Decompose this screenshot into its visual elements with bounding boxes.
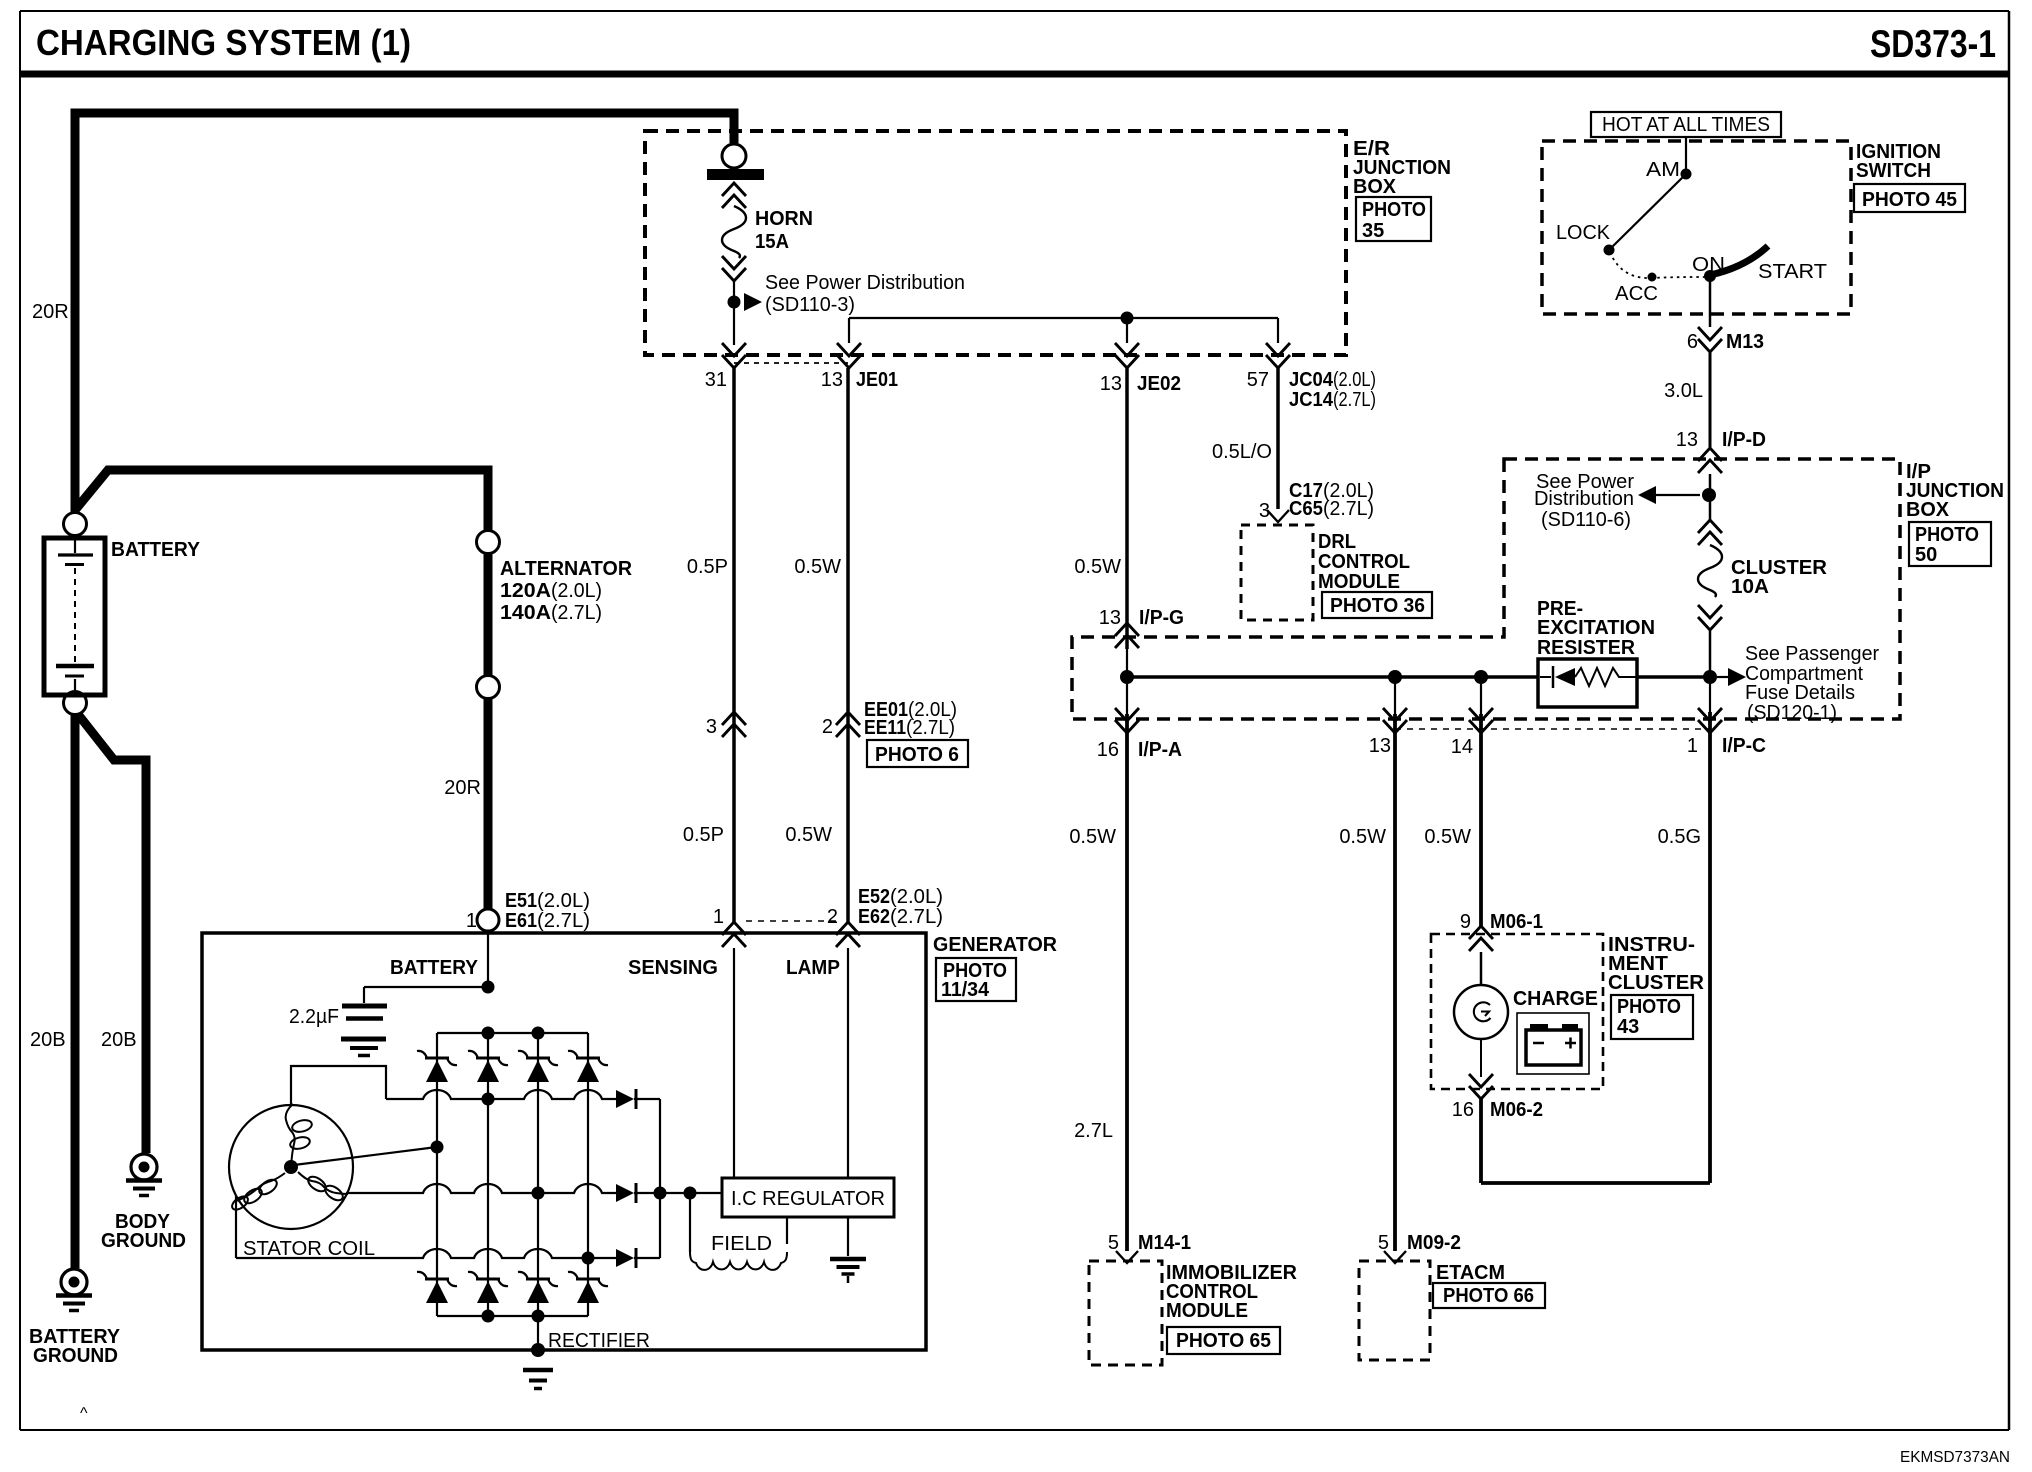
svg-text:20B: 20B <box>101 1029 137 1051</box>
svg-text:RECTIFIER: RECTIFIER <box>548 1330 650 1352</box>
svg-text:2.2µF: 2.2µF <box>289 1006 339 1028</box>
svg-text:3: 3 <box>706 716 717 738</box>
svg-text:PHOTO: PHOTO <box>1915 524 1979 546</box>
svg-text:(SD110-6): (SD110-6) <box>1541 509 1631 531</box>
svg-text:3.0L: 3.0L <box>1664 380 1703 402</box>
svg-text:43: 43 <box>1617 1016 1639 1038</box>
svg-text:GENERATOR: GENERATOR <box>933 934 1058 956</box>
svg-text:JC14(2.7L): JC14(2.7L) <box>1289 389 1376 411</box>
svg-text:16: 16 <box>1097 739 1119 761</box>
svg-text:I.C REGULATOR: I.C REGULATOR <box>731 1188 885 1210</box>
svg-text:PHOTO: PHOTO <box>1617 996 1681 1018</box>
svg-text:BOX: BOX <box>1906 499 1950 521</box>
svg-text:E61(2.7L): E61(2.7L) <box>505 910 590 932</box>
svg-text:2: 2 <box>827 906 838 928</box>
svg-text:5: 5 <box>1378 1232 1389 1254</box>
svg-text:0.5W: 0.5W <box>794 556 841 578</box>
svg-text:14: 14 <box>1451 736 1473 758</box>
svg-text:2.7L: 2.7L <box>1074 1120 1113 1142</box>
svg-text:3: 3 <box>1259 500 1270 522</box>
svg-text:1: 1 <box>713 906 724 928</box>
svg-text:140A(2.7L): 140A(2.7L) <box>500 602 602 624</box>
svg-text:^: ^ <box>80 1405 88 1422</box>
svg-text:PHOTO 6: PHOTO 6 <box>875 744 959 766</box>
svg-text:M06-1: M06-1 <box>1490 911 1543 933</box>
svg-text:M09-2: M09-2 <box>1407 1232 1461 1254</box>
svg-text:I/P-A: I/P-A <box>1138 739 1182 761</box>
svg-text:13: 13 <box>1099 607 1121 629</box>
svg-text:ON: ON <box>1692 254 1725 276</box>
svg-text:0.5W: 0.5W <box>1339 826 1386 848</box>
svg-text:13: 13 <box>1369 735 1391 757</box>
svg-text:1: 1 <box>466 910 477 932</box>
svg-text:SD373-1: SD373-1 <box>1870 23 1996 66</box>
svg-text:GROUND: GROUND <box>101 1230 186 1252</box>
svg-text:(SD110-3): (SD110-3) <box>765 294 855 316</box>
svg-text:BATTERY: BATTERY <box>111 539 201 561</box>
svg-text:RESISTER: RESISTER <box>1537 637 1636 659</box>
svg-text:0.5W: 0.5W <box>1069 826 1116 848</box>
svg-text:See Passenger: See Passenger <box>1745 643 1879 665</box>
svg-text:SWITCH: SWITCH <box>1856 160 1931 182</box>
svg-text:M14-1: M14-1 <box>1138 1232 1191 1254</box>
svg-text:CHARGING SYSTEM (1): CHARGING SYSTEM (1) <box>36 22 411 63</box>
svg-text:13: 13 <box>821 369 843 391</box>
svg-text:I/P-G: I/P-G <box>1139 607 1184 629</box>
svg-text:HORN: HORN <box>755 208 813 230</box>
svg-text:SENSING: SENSING <box>628 957 718 979</box>
svg-text:I/P-D: I/P-D <box>1722 429 1766 451</box>
svg-text:M13: M13 <box>1726 331 1764 353</box>
svg-text:FIELD: FIELD <box>711 1233 772 1255</box>
svg-text:STATOR COIL: STATOR COIL <box>243 1238 375 1260</box>
svg-text:E62(2.7L): E62(2.7L) <box>858 906 943 928</box>
svg-text:20B: 20B <box>30 1029 66 1051</box>
svg-text:Distribution: Distribution <box>1534 488 1634 510</box>
svg-text:0.5W: 0.5W <box>1424 826 1471 848</box>
svg-text:10A: 10A <box>1731 576 1769 598</box>
svg-text:2: 2 <box>822 716 833 738</box>
svg-text:13: 13 <box>1100 373 1122 395</box>
svg-text:0.5P: 0.5P <box>687 556 728 578</box>
svg-text:DRL: DRL <box>1318 531 1356 553</box>
svg-text:0.5G: 0.5G <box>1658 826 1701 848</box>
svg-text:GROUND: GROUND <box>33 1345 118 1367</box>
svg-text:15A: 15A <box>755 231 789 253</box>
svg-text:9: 9 <box>1460 911 1471 933</box>
svg-text:BOX: BOX <box>1353 176 1397 198</box>
svg-text:6: 6 <box>1687 331 1698 353</box>
svg-text:0.5W: 0.5W <box>1074 556 1121 578</box>
svg-text:EE11(2.7L): EE11(2.7L) <box>864 717 955 739</box>
svg-text:M06-2: M06-2 <box>1490 1099 1543 1121</box>
svg-text:31: 31 <box>705 369 727 391</box>
svg-text:0.5W: 0.5W <box>785 824 832 846</box>
svg-text:50: 50 <box>1915 544 1937 566</box>
svg-text:I/P-C: I/P-C <box>1722 735 1766 757</box>
svg-text:11/34: 11/34 <box>941 979 990 1001</box>
svg-text:1: 1 <box>1687 735 1698 757</box>
svg-text:JC04(2.0L): JC04(2.0L) <box>1289 369 1376 391</box>
svg-text:JE01: JE01 <box>856 369 898 391</box>
svg-text:JE02: JE02 <box>1137 373 1181 395</box>
svg-text:13: 13 <box>1676 429 1698 451</box>
svg-text:E51(2.0L): E51(2.0L) <box>505 890 590 912</box>
svg-text:PHOTO 45: PHOTO 45 <box>1862 189 1957 211</box>
svg-text:ETACM: ETACM <box>1436 1262 1505 1284</box>
svg-text:See Power Distribution: See Power Distribution <box>765 272 965 294</box>
svg-text:(SD120-1): (SD120-1) <box>1747 702 1837 724</box>
svg-text:AM: AM <box>1646 159 1680 181</box>
svg-text:EXCITATION: EXCITATION <box>1537 617 1655 639</box>
svg-text:0.5L/O: 0.5L/O <box>1212 441 1272 463</box>
svg-text:E52(2.0L): E52(2.0L) <box>858 886 943 908</box>
svg-text:CLUSTER: CLUSTER <box>1608 972 1705 994</box>
svg-text:MODULE: MODULE <box>1166 1300 1248 1322</box>
svg-text:ACC: ACC <box>1615 283 1658 305</box>
svg-text:16: 16 <box>1452 1099 1474 1121</box>
svg-text:PHOTO 36: PHOTO 36 <box>1330 595 1425 617</box>
svg-text:Fuse Details: Fuse Details <box>1745 682 1855 704</box>
svg-text:EKMSD7373AN: EKMSD7373AN <box>1900 1449 2010 1466</box>
svg-text:PHOTO: PHOTO <box>1362 199 1426 221</box>
svg-text:PHOTO 65: PHOTO 65 <box>1176 1330 1271 1352</box>
svg-text:BATTERY: BATTERY <box>390 957 479 979</box>
svg-text:C65(2.7L): C65(2.7L) <box>1289 498 1374 520</box>
svg-text:START: START <box>1758 261 1827 283</box>
svg-text:5: 5 <box>1108 1232 1119 1254</box>
svg-text:HOT AT ALL TIMES: HOT AT ALL TIMES <box>1602 114 1770 136</box>
svg-text:LAMP: LAMP <box>786 957 840 979</box>
svg-text:LOCK: LOCK <box>1556 222 1611 244</box>
svg-text:20R: 20R <box>444 777 481 799</box>
svg-text:ALTERNATOR: ALTERNATOR <box>500 558 633 580</box>
svg-text:MODULE: MODULE <box>1318 571 1400 593</box>
svg-text:PHOTO 66: PHOTO 66 <box>1443 1285 1534 1307</box>
svg-text:CONTROL: CONTROL <box>1318 551 1410 573</box>
svg-text:120A(2.0L): 120A(2.0L) <box>500 580 602 602</box>
svg-text:20R: 20R <box>32 301 69 323</box>
svg-text:35: 35 <box>1362 220 1384 242</box>
svg-text:CHARGE: CHARGE <box>1513 988 1598 1010</box>
svg-text:0.5P: 0.5P <box>683 824 724 846</box>
svg-text:57: 57 <box>1247 369 1269 391</box>
